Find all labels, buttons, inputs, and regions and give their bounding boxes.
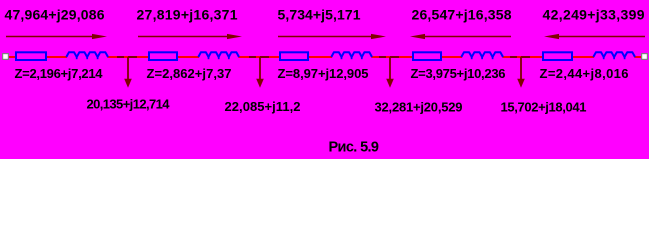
resistor section 2: [149, 52, 177, 60]
current arrow 5 (left): [544, 34, 645, 39]
current arrow 4 (left): [410, 34, 511, 39]
junction dash 2: [249, 56, 269, 58]
svg-text:20,135+j12,714: 20,135+j12,714: [87, 97, 171, 112]
wire main line: [9, 56, 643, 58]
svg-text:Рис. 5.9: Рис. 5.9: [329, 139, 380, 155]
svg-text:47,964+j29,086: 47,964+j29,086: [5, 7, 105, 23]
terminal right: [642, 54, 648, 60]
inductor section 3: [331, 52, 372, 59]
svg-text:Z=3,975+j10,236: Z=3,975+j10,236: [411, 66, 506, 81]
svg-text:Z=2,862+j7,37: Z=2,862+j7,37: [147, 66, 232, 81]
svg-text:5,734+j5,171: 5,734+j5,171: [278, 7, 361, 23]
inductor section 5: [593, 52, 635, 59]
junction dash 3: [379, 56, 399, 58]
svg-text:42,249+j33,399: 42,249+j33,399: [543, 7, 645, 23]
inductor section 2: [198, 52, 239, 59]
svg-text:15,702+j18,041: 15,702+j18,041: [501, 100, 587, 115]
resistor section 1: [16, 52, 46, 60]
current arrow 3 (right): [278, 34, 386, 39]
svg-text:32,281+j20,529: 32,281+j20,529: [375, 100, 463, 115]
load arrow 2: [256, 57, 264, 88]
svg-text:Z=8,97+j12,905: Z=8,97+j12,905: [278, 66, 369, 81]
resistor section 4: [413, 52, 441, 60]
inductor section 1: [66, 52, 108, 59]
svg-text:Z=2,44+j8,016: Z=2,44+j8,016: [540, 66, 629, 81]
svg-text:27,819+j16,371: 27,819+j16,371: [137, 7, 238, 23]
junction dash 4: [510, 56, 530, 58]
svg-text:26,547+j16,358: 26,547+j16,358: [412, 7, 512, 23]
current arrow 2 (right): [138, 34, 242, 39]
inductor section 4: [461, 52, 503, 59]
load arrow 4: [517, 57, 525, 88]
svg-text:22,085+j11,2: 22,085+j11,2: [225, 99, 301, 114]
current arrow 1 (right): [6, 34, 107, 39]
junction dash 1: [117, 56, 137, 58]
terminal left: [3, 54, 9, 60]
resistor section 3: [280, 52, 308, 60]
load arrow 3: [386, 57, 394, 88]
load arrow 1: [124, 57, 132, 88]
svg-text:Z=2,196+j7,214: Z=2,196+j7,214: [15, 66, 104, 81]
resistor section 5: [543, 52, 572, 60]
